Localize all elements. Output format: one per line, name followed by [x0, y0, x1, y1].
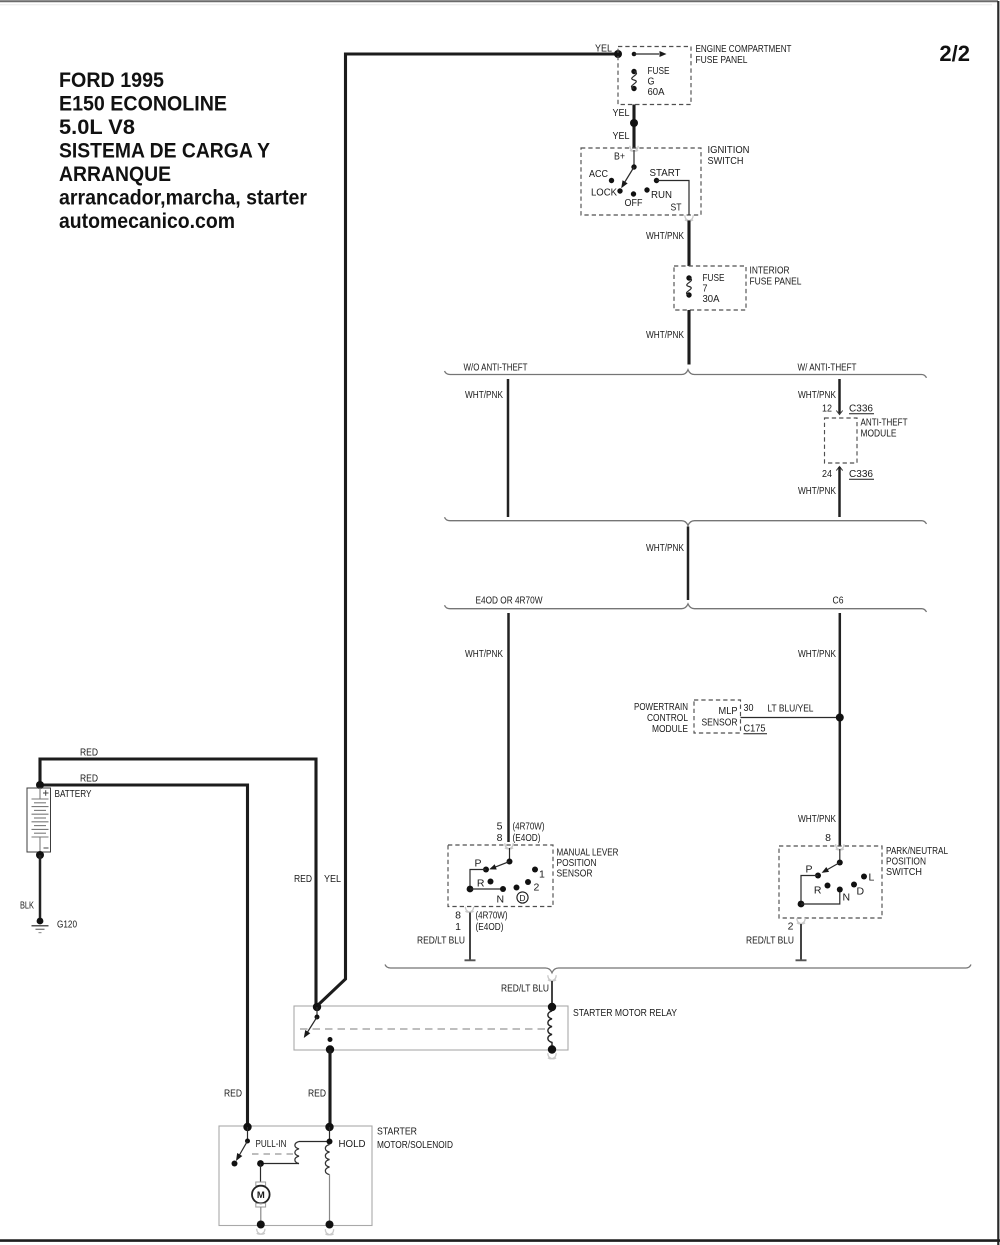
wire WHT/PNK ignition to interior fuse panel [687, 221, 690, 267]
wire RED/LT BLU from MLP sensor [465, 913, 476, 961]
svg-text:SWITCH: SWITCH [886, 866, 922, 878]
svg-text:N: N [843, 892, 851, 904]
svg-text:HOLD: HOLD [339, 1138, 366, 1150]
svg-text:YEL: YEL [613, 107, 630, 119]
anti-theft module box [825, 418, 858, 463]
solenoid input nodes [243, 1123, 333, 1131]
svg-text:L: L [869, 872, 875, 884]
svg-text:30: 30 [744, 702, 754, 714]
connector at park/neutral switch output [797, 918, 805, 924]
MLP terminal P [474, 858, 489, 873]
labels 8 (4R70W) / 1 (E4OD) below MLP sensor [455, 910, 507, 934]
svg-text:RED/LT BLU: RED/LT BLU [746, 935, 794, 947]
relay output contact [328, 1037, 333, 1042]
connector at MLP sensor output [465, 907, 473, 912]
starter motor/solenoid box [219, 1126, 372, 1226]
node junction on YEL wire [630, 119, 638, 127]
label STARTER MOTOR/SOLENOID [377, 1126, 453, 1152]
svg-text:R: R [814, 885, 822, 897]
wire YEL fuse panel to ignition switch [632, 105, 635, 149]
svg-text:ARRANQUE: ARRANQUE [59, 163, 171, 186]
MLP terminal R [477, 878, 494, 890]
svg-text:RED: RED [294, 873, 312, 885]
HOLD terminal and label [327, 1127, 366, 1150]
page bottom border [0, 1239, 1000, 1242]
ignition switch box [581, 148, 701, 215]
svg-text:RUN: RUN [651, 189, 672, 201]
wire BLK battery to ground [39, 855, 42, 918]
svg-text:WHT/PNK: WHT/PNK [646, 230, 684, 242]
manual lever position sensor box [448, 845, 553, 907]
svg-text:P: P [474, 858, 481, 870]
svg-text:YEL: YEL [613, 130, 630, 142]
label INTERIOR FUSE PANEL [750, 265, 802, 288]
svg-text:P: P [805, 864, 812, 876]
connector at park/neutral switch input [836, 844, 844, 850]
svg-text:N: N [497, 894, 505, 906]
svg-text:(4R70W): (4R70W) [476, 910, 508, 922]
svg-text:SISTEMA DE CARGA Y: SISTEMA DE CARGA Y [59, 140, 270, 163]
svg-text:D: D [857, 886, 865, 898]
connector at MLP sensor input [505, 843, 513, 849]
fuse 7 30A [686, 275, 691, 297]
svg-text:LT BLU/YEL: LT BLU/YEL [768, 703, 814, 715]
svg-text:E4OD OR 4R70W: E4OD OR 4R70W [476, 595, 543, 607]
connector below relay coil [548, 1053, 556, 1059]
connector at ignition switch ST output [685, 215, 693, 221]
PNP terminal D [851, 882, 865, 898]
svg-text:B+: B+ [614, 151, 625, 163]
interior fuse panel box [674, 266, 746, 310]
svg-text:G120: G120 [57, 919, 77, 931]
svg-text:1: 1 [539, 869, 545, 881]
svg-text:RED: RED [80, 773, 98, 785]
PNP P to output path [798, 876, 840, 908]
label ENGINE COMPARTMENT FUSE PANEL [696, 43, 792, 66]
wire RED battery to starter solenoid [42, 785, 248, 1126]
svg-text:2: 2 [534, 882, 540, 894]
PULL-IN terminal and label [245, 1127, 287, 1150]
park/neutral position switch box [779, 846, 882, 918]
wire WHT/PNK E4OD/4R70W branch [507, 613, 510, 842]
engine compartment fuse panel box [618, 47, 691, 105]
wire WHT/PNK to anti-theft split [687, 310, 690, 365]
svg-text:8: 8 [455, 910, 461, 922]
svg-text:M: M [257, 1190, 265, 1201]
svg-text:WHT/PNK: WHT/PNK [465, 648, 503, 660]
connectors below solenoid box [257, 1229, 334, 1235]
battery BAT symbol [27, 788, 51, 852]
ignition switch common node B+ [631, 150, 636, 170]
svg-text:5: 5 [497, 821, 503, 833]
svg-text:R: R [477, 878, 485, 890]
page top border [0, 1, 998, 5]
svg-text:C6: C6 [833, 595, 844, 607]
svg-text:1: 1 [455, 921, 461, 933]
svg-text:8: 8 [497, 832, 503, 844]
connector at ignition switch input [630, 146, 638, 151]
starter motor relay box [294, 1006, 568, 1050]
MLP terminal 2 [525, 879, 540, 894]
svg-text:(E4OD): (E4OD) [513, 832, 541, 844]
svg-text:OFF: OFF [625, 197, 643, 209]
label FUSE 7 30A [703, 272, 725, 305]
svg-text:WHT/PNK: WHT/PNK [798, 813, 836, 825]
svg-text:W/O ANTI-THEFT: W/O ANTI-THEFT [464, 362, 528, 374]
svg-text:STARTER: STARTER [377, 1126, 417, 1138]
svg-text:C175: C175 [744, 723, 766, 735]
svg-text:(4R70W): (4R70W) [513, 821, 545, 833]
pull-in coil [295, 1142, 330, 1164]
svg-text:D: D [519, 893, 525, 903]
svg-text:SWITCH: SWITCH [708, 155, 744, 167]
wire WHT/PNK C6 branch [839, 613, 842, 846]
fuse G 60A [631, 69, 636, 91]
svg-text:BLK: BLK [20, 900, 34, 912]
svg-text:WHT/PNK: WHT/PNK [646, 542, 684, 554]
svg-text:2/2: 2/2 [939, 41, 970, 66]
svg-text:MODULE: MODULE [861, 428, 897, 440]
ignition switch arm to LOCK [619, 167, 634, 190]
svg-text:WHT/PNK: WHT/PNK [798, 648, 836, 660]
svg-text:2: 2 [788, 921, 794, 933]
pull-in coil to motor link [257, 1160, 299, 1167]
label MLP SENSOR [702, 705, 738, 729]
PNP terminal P [805, 864, 821, 879]
svg-text:C336: C336 [849, 403, 873, 415]
label ANTI-THEFT MODULE [861, 417, 908, 440]
svg-text:WHT/PNK: WHT/PNK [465, 389, 503, 401]
label FUSE G 60A [648, 65, 670, 98]
wire YEL main feed (horizontal top + long left vertical) [318, 53, 619, 1006]
wire WHT/PNK merged [687, 527, 690, 601]
ground G120 [32, 918, 49, 933]
label PARK/NEUTRAL POSITION SWITCH [886, 845, 948, 878]
label IGNITION SWITCH [708, 144, 750, 167]
label MANUAL LEVER POSITION SENSOR [557, 847, 619, 880]
relay switch arm [301, 1007, 319, 1040]
terminal ACC [589, 168, 614, 183]
svg-text:RED: RED [80, 747, 98, 759]
wire RED/LT BLU from park/neutral switch [796, 924, 807, 960]
connector label C336 [849, 468, 874, 480]
svg-text:STARTER MOTOR RELAY: STARTER MOTOR RELAY [573, 1007, 677, 1019]
svg-text:C336: C336 [849, 468, 873, 480]
svg-text:ACC: ACC [589, 168, 608, 180]
PNP terminal R [814, 883, 831, 897]
svg-text:START: START [650, 167, 682, 179]
svg-text:30A: 30A [703, 293, 720, 305]
svg-text:FUSE PANEL: FUSE PANEL [696, 54, 748, 66]
svg-text:W/ ANTI-THEFT: W/ ANTI-THEFT [798, 362, 857, 374]
svg-text:60A: 60A [648, 86, 665, 98]
MLP circled D label [517, 892, 528, 903]
svg-text:5.0L V8: 5.0L V8 [59, 116, 135, 139]
label POWERTRAIN CONTROL MODULE [634, 701, 688, 735]
svg-text:RED/LT BLU: RED/LT BLU [501, 983, 549, 995]
PCM MLP sensor box [694, 700, 741, 733]
wire RED battery to relay [40, 759, 316, 1006]
hold coil [325, 1145, 329, 1225]
svg-text:(E4OD): (E4OD) [476, 921, 504, 933]
PNP terminal N [837, 887, 850, 904]
PNP terminal L [861, 872, 875, 884]
svg-text:BATTERY: BATTERY [55, 788, 92, 800]
battery positive node [36, 781, 44, 789]
node junction at fuse panel input [614, 50, 622, 58]
terminal START [650, 167, 682, 183]
terminal RUN [644, 187, 672, 201]
relay coil [548, 1003, 556, 1054]
wire stub with arrow into fuse panel [632, 51, 667, 57]
solenoid mechanical dashed link [252, 1153, 296, 1155]
svg-text:PULL-IN: PULL-IN [256, 1138, 287, 1150]
terminal OFF [625, 191, 643, 209]
bus brace: anti-theft merge [445, 517, 927, 525]
terminal LOCK [591, 187, 623, 199]
connector label C175 [744, 723, 768, 735]
wire WHT/PNK w/o anti-theft branch [507, 379, 510, 517]
wire RED/LT BLU to starter motor relay [551, 981, 553, 1006]
svg-text:WHT/PNK: WHT/PNK [646, 329, 684, 341]
svg-text:RED/LT BLU: RED/LT BLU [417, 935, 465, 947]
MLP terminal 1 [532, 867, 545, 881]
svg-text:E150 ECONOLINE: E150 ECONOLINE [59, 93, 227, 116]
connector label C336 [849, 403, 874, 415]
svg-text:RED: RED [224, 1088, 242, 1100]
svg-text:YEL: YEL [324, 873, 341, 885]
wire WHT/PNK from anti-theft module pin 24 [836, 467, 842, 518]
svg-text:12: 12 [822, 403, 832, 415]
bus brace: anti-theft option split [445, 370, 927, 378]
svg-text:MODULE: MODULE [652, 723, 688, 735]
node junction LT BLU/YEL with WHT/PNK [836, 714, 844, 722]
svg-text:YEL: YEL [595, 43, 612, 55]
svg-text:arrancador,marcha, starter: arrancador,marcha, starter [59, 187, 307, 210]
MLP P to output path [467, 870, 503, 893]
svg-text:RED: RED [308, 1088, 326, 1100]
svg-text:MLP: MLP [719, 705, 738, 717]
svg-text:WHT/PNK: WHT/PNK [798, 389, 836, 401]
solenoid switch arm [232, 1141, 248, 1167]
svg-text:LOCK: LOCK [591, 187, 617, 199]
svg-text:SENSOR: SENSOR [702, 717, 738, 729]
relay mechanical dashed link [300, 1028, 546, 1030]
battery negative node [36, 851, 44, 859]
svg-text:automecanico.com: automecanico.com [59, 210, 235, 233]
solenoid ground nodes [257, 1221, 334, 1229]
svg-text:FORD 1995: FORD 1995 [59, 69, 164, 92]
MLP terminal D [514, 885, 520, 891]
svg-text:SENSOR: SENSOR [557, 868, 593, 880]
bus brace: transmission option split [445, 604, 927, 612]
labels 5 (4R70W) / 8 (E4OD) above MLP sensor [497, 821, 545, 845]
relay output node [326, 1045, 334, 1053]
wire START to ST output [657, 181, 690, 216]
MLP common node and switch arm [488, 848, 512, 872]
page right border [997, 1, 999, 1245]
starter motor M [252, 1164, 270, 1225]
PNP common node and switch arm [820, 849, 843, 875]
svg-text:ST: ST [671, 202, 682, 214]
wire RED relay to solenoid HOLD [328, 1050, 331, 1126]
svg-text:FUSE PANEL: FUSE PANEL [750, 276, 802, 288]
title text block [59, 69, 307, 233]
svg-text:8: 8 [825, 832, 831, 844]
wire WHT/PNK to anti-theft module pin 12 [836, 379, 842, 415]
svg-text:WHT/PNK: WHT/PNK [798, 485, 836, 497]
MLP terminal N [497, 886, 507, 906]
wire LT BLU/YEL from PCM [741, 717, 837, 719]
connector below merge [548, 975, 556, 981]
svg-text:24: 24 [822, 468, 832, 480]
bus brace: starter relay feed merge [385, 965, 971, 973]
svg-text:MOTOR/SOLENOID: MOTOR/SOLENOID [377, 1139, 453, 1151]
relay input node [313, 1003, 321, 1011]
